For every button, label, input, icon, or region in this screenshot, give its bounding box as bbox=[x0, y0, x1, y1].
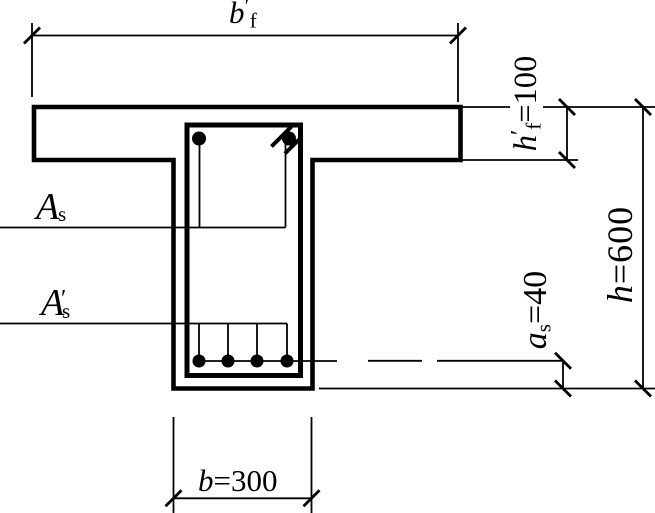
leader line A'_s bbox=[0, 323, 287, 325]
bottom bar 1 bbox=[193, 355, 206, 368]
dimension line h'_f bbox=[566, 107, 568, 160]
stirrup bbox=[187, 125, 301, 376]
tick a_s bottom bbox=[555, 381, 571, 397]
extension line b left bbox=[173, 417, 175, 513]
extension line from flange top to right (with gap for text) bbox=[461, 106, 655, 108]
tick h'_f bottom bbox=[559, 152, 575, 168]
bottom bar axis dashed segment 2 bbox=[437, 360, 562, 362]
T-beam section outline bbox=[34, 107, 461, 389]
svg-text:as=40: as=40 bbox=[517, 271, 556, 349]
extension line b right bbox=[311, 417, 313, 513]
bent-bar slash 1 bbox=[272, 127, 292, 147]
top bar left bbox=[192, 132, 206, 146]
leader line A_s bbox=[0, 227, 286, 229]
tick a_s top bbox=[555, 353, 571, 369]
tick h top bbox=[635, 99, 651, 115]
extension line b'_f left bbox=[31, 23, 33, 97]
bent-bar slash 2 bbox=[285, 138, 301, 154]
svg-text:s: s bbox=[62, 299, 70, 323]
hanger from top-right bar to A_s leader bbox=[285, 143, 287, 228]
dimension line b bbox=[174, 497, 312, 499]
hanger from top-left bar to A_s leader bbox=[199, 141, 201, 228]
svg-text:h=600: h=600 bbox=[600, 206, 640, 303]
tick b'_f left bbox=[24, 28, 40, 44]
bottom bar axis dashed segment 1 bbox=[368, 360, 422, 362]
tick b left bbox=[166, 490, 182, 506]
tick h bottom bbox=[635, 381, 651, 397]
dimension line b'_f bbox=[32, 35, 458, 37]
extension line from flange bottom to right bbox=[461, 159, 578, 161]
bottom bar axis line (solid part) bbox=[199, 360, 337, 362]
hangers from A'_s leader to bottom bars bbox=[199, 324, 287, 362]
tick b right bbox=[304, 490, 320, 506]
dimension line a_s bbox=[562, 361, 564, 389]
extension line b'_f right bbox=[457, 23, 459, 102]
tick h'_f top bbox=[559, 99, 575, 115]
svg-text:b=300: b=300 bbox=[198, 463, 277, 498]
top bar right (bent) bbox=[282, 132, 296, 146]
bottom bar 3 bbox=[251, 355, 264, 368]
svg-text:A: A bbox=[33, 186, 60, 228]
svg-text:s: s bbox=[58, 202, 66, 226]
bottom bar 2 bbox=[222, 355, 235, 368]
bottom bar 4 bbox=[281, 355, 294, 368]
dimension line h bbox=[642, 107, 644, 389]
extension line from web bottom to right bbox=[319, 388, 655, 390]
svg-text:h′f=100: h′f=100 bbox=[507, 56, 546, 152]
tick b'_f right bbox=[450, 28, 466, 44]
